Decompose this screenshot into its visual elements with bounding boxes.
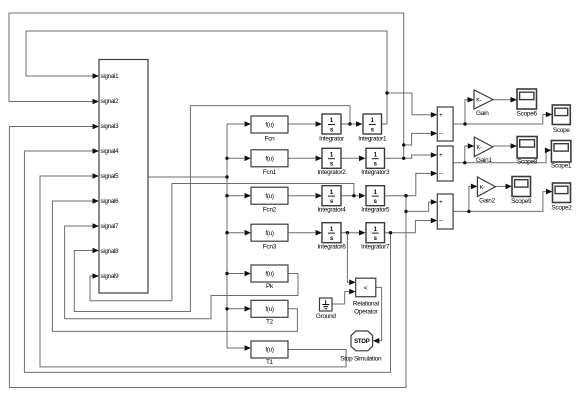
svg-text:Gain2: Gain2 [479,198,495,205]
svg-text:f(u): f(u) [265,271,273,278]
sum block Sum2 [437,146,453,181]
svg-text:Fcn3: Fcn3 [263,244,277,251]
mux block with signal inputs [99,60,148,294]
wire trunk branch to T1 [227,347,244,349]
wire trunk branch to T2 [227,308,244,310]
junction Integrator7 net [389,231,392,234]
junction Sum2 output [463,161,466,164]
wire Gain2 to Scope9 [495,185,506,187]
wire Sum2 output riser to Gain1 [465,146,469,163]
svg-text:signal5: signal5 [101,173,120,180]
arrowhead into Scope2 [546,189,553,195]
junction Integrator3 net at riser [402,157,405,160]
arrowhead into signal3 [93,124,100,130]
arrowhead into Sum2 minus [431,171,438,177]
arrowhead into Fcn1 [245,156,252,162]
arrowhead into Scope [546,112,553,118]
svg-text:signal7: signal7 [101,223,120,230]
junction on trunk [225,157,228,160]
svg-text:Integrator7: Integrator7 [361,244,390,251]
svg-text:Scope8: Scope8 [517,158,538,165]
integrator block Integrator2 [317,148,346,176]
wire Gain1 to Scope8 [493,145,511,147]
arrowhead into second integrator [359,156,366,162]
scope block Scope1 [551,141,572,170]
svg-text:Stop Simulation: Stop Simulation [340,356,382,363]
arrowhead into Scope8 [511,143,517,149]
wire Integrator7 net to Sum3 minus input [391,221,437,233]
arrowhead into T2 [245,306,252,312]
integrator block Integrator7 [361,223,390,251]
svg-text:Scope6: Scope6 [517,111,538,118]
wire Integrator5 net to Sum3 plus input [406,202,436,211]
arrowhead into signal9 [93,273,100,279]
svg-text:f(u): f(u) [265,122,273,129]
wire Fcn row 4 to first integrator [288,232,315,234]
svg-text:signal6: signal6 [101,198,120,205]
integrator block Integrator5 [361,186,390,214]
function block Fcn2 [251,187,288,213]
junction Sum3 output [467,210,470,213]
arrowhead into Sum1 minus [431,131,438,137]
arrowhead into signal1 [93,73,100,79]
arrowhead into Pk [245,271,252,277]
arrowhead into second integrator [359,193,366,199]
scope block Scope9 [511,177,532,206]
svg-text:f(u): f(u) [265,306,273,313]
wire Sum3 output riser to Gain2 [469,186,472,211]
sum block Sum1 [437,107,453,141]
junction on trunk [225,231,228,234]
svg-text:Scope: Scope [553,127,571,134]
arrowhead into signal6 [93,198,100,204]
wire mux output to trunk [148,176,227,178]
wire T1 output feedback to signal5 [40,176,346,367]
wire Pk output feedback to signal7 [65,226,298,319]
junction Integrator6 output (row4) [346,231,349,234]
svg-text:T2: T2 [266,319,274,326]
wire Integrator1 output to Sum1 plus input [387,93,436,115]
svg-text:f(u): f(u) [265,193,273,200]
arrowhead into Scope9 [506,184,513,190]
svg-text:Fcn1: Fcn1 [263,169,277,176]
svg-text:+: + [439,199,443,206]
svg-text:signal2: signal2 [101,98,120,105]
sum block Sum3 [437,194,453,229]
svg-text:<: < [364,285,368,292]
svg-text:T1: T1 [266,359,274,366]
wire row 3 between integrators [341,195,359,197]
svg-text:Gain: Gain [476,110,489,117]
junction Integrator4 output (row3) [352,194,355,197]
wire trunk branch to Pk [227,273,244,275]
svg-text:Integrator6: Integrator6 [317,244,346,251]
svg-text:Ground: Ground [316,313,337,320]
svg-text:f(u): f(u) [265,230,273,237]
function block Fcn3 [251,224,288,250]
arrowhead into Relational Operator first input [349,280,356,286]
svg-text:Integrator5: Integrator5 [361,207,390,214]
wire Integrator3 net to Sum2 plus input [404,155,436,158]
svg-text:Gain1: Gain1 [476,157,492,164]
wire T2 output feedback to signal6 [52,201,297,331]
wire Integrator5 output feedback to signal3 (net x3) [9,127,406,388]
arrowhead into Gain2 [471,184,478,190]
arrowhead into second integrator [356,121,363,127]
scope block Scope [552,105,570,134]
svg-text:Pk: Pk [266,283,274,290]
junction Sum1 output [463,122,466,125]
arrowhead into first integrator [316,156,323,162]
arrowhead into Scope1 [545,148,552,154]
wire Integrator7 output feedback to signal4 (net x4) [24,151,390,372]
arrowhead into signal8 [93,248,100,254]
wire Sum1 output riser to Gain [465,100,468,124]
wire Fcn row 1 to first integrator [288,123,315,125]
function block Fcn1 [251,150,288,176]
svg-text:–: – [439,218,443,225]
gain block Gain [474,90,493,117]
wire Fcn row 2 to first integrator [288,157,315,159]
svg-text:signal4: signal4 [101,148,120,155]
svg-text:Scope9: Scope9 [511,198,532,205]
wire Gain to Scope6 [493,99,511,101]
svg-text:+: + [439,152,443,159]
junction on trunk [225,194,228,197]
wire trunk branch to Fcn2 [227,195,244,197]
junction Integrator5 net upper [404,194,407,197]
svg-text:–: – [439,171,443,178]
svg-text:Relational: Relational [353,300,379,307]
arrowhead into Gain [468,97,475,103]
arrowhead into Sum3 plus [431,199,438,205]
function block Pk [251,265,288,290]
wire Integrator4 output feedback to signal9 [90,184,354,301]
ground block Ground [316,298,337,320]
arrowhead into Fcn3 [245,230,252,236]
svg-text:Scope2: Scope2 [551,205,572,212]
wire Sum1 output to Scope [453,115,547,125]
junction Integrator5 net lower [404,210,407,213]
wire row 4 between integrators [341,232,359,234]
svg-text:signal3: signal3 [101,123,120,130]
svg-text:signal1: signal1 [101,73,120,80]
arrowhead into second integrator [359,230,366,236]
svg-text:signal8: signal8 [101,248,120,255]
svg-text:K-: K- [477,145,482,151]
svg-text:Integrator3: Integrator3 [361,169,390,176]
scope block Scope2 [551,183,572,212]
integrator block Integrator6 [317,223,346,251]
wire Integrator3 net to Sum1 minus input [404,133,436,145]
wire Integrator output feedback to signal8 [74,106,350,312]
wire Sum3 output to Scope2 [453,192,547,212]
integrator block Integrator3 [361,148,390,176]
gain block Gain2 [477,177,495,205]
arrowhead into Sum3 minus [431,218,438,224]
gain block Gain1 [474,137,493,164]
junction on trunk [225,175,228,178]
svg-text:–: – [439,131,443,138]
arrowhead into T1 [245,345,252,351]
svg-text:+: + [439,112,443,119]
arrowhead into first integrator [316,193,323,199]
arrowhead into Scope6 [511,97,518,103]
arrowhead into Fcn [245,121,252,127]
arrowhead into first integrator [316,230,323,236]
arrowhead into signal2 [93,99,100,105]
arrowhead into signal5 [93,173,100,179]
svg-text:f(u): f(u) [265,156,273,163]
integrator block Integrator4 [317,186,346,214]
svg-text:Integrator4: Integrator4 [317,207,346,214]
wire row 2 between integrators [341,157,359,159]
wire trunk branch to Fcn1 [227,157,244,159]
scope block Scope6 [517,89,538,118]
function block Fcn [251,116,288,143]
arrowhead into Stop Simulation [373,338,380,344]
svg-text:Integrator2: Integrator2 [317,169,346,176]
function block T2 [251,300,288,325]
wire Integrator6 output to Relational Operator first input [347,233,349,283]
integrator block Integrator [319,114,345,143]
svg-text:Scope1: Scope1 [551,163,572,170]
arrowhead into signal4 [93,148,100,154]
arrowhead into Relational Operator second input [349,289,356,295]
relational operator block [353,278,379,315]
junction Integrator3 net to Sum1 minus [402,143,405,146]
wire Sum2 output to Scope1 [453,150,548,162]
junction on trunk [225,307,228,310]
wire trunk vertical feeding function blocks [226,124,228,348]
svg-text:K-: K- [480,185,485,191]
wire trunk branch to Fcn [227,123,244,125]
integrator block Integrator1 [358,114,387,143]
junction Integrator output (row1) [348,122,351,125]
svg-text:f(u): f(u) [265,347,273,354]
wire trunk branch to Fcn3 [227,232,244,234]
svg-text:Fcn2: Fcn2 [263,207,277,214]
wire Relational Operator output to Stop Simulation [376,287,382,340]
arrowhead into Gain1 [468,143,475,149]
arrowhead into Sum2 plus [431,152,438,158]
svg-text:STOP: STOP [354,339,370,345]
wire Integrator5 net to Sum2 minus input [406,173,436,195]
wire Fcn row 3 to first integrator [288,195,315,197]
svg-text:Operator: Operator [354,309,378,316]
svg-text:Fcn: Fcn [265,136,276,143]
svg-text:signal9: signal9 [101,273,120,280]
function block T1 [251,341,288,366]
arrowhead into signal7 [93,223,100,229]
wire Integrator1 output feedback to signal1 (net x1) [26,31,387,124]
svg-text:Integrator1: Integrator1 [358,136,387,143]
wire Ground to Relational Operator second input [332,292,350,304]
arrowhead into Fcn2 [245,193,252,199]
junction Integrator1 net [385,91,388,94]
arrowhead into first integrator [316,121,323,127]
svg-text:Integrator: Integrator [319,136,345,143]
stop simulation block [340,331,382,363]
wire row 1 between integrators [341,123,356,125]
arrowhead into Sum1 plus [431,112,438,118]
svg-text:K-: K- [476,98,481,104]
wire Integrator3 output feedback to signal2 (net x2) [9,13,404,158]
scope block Scope8 [517,137,538,166]
junction on trunk [225,272,228,275]
